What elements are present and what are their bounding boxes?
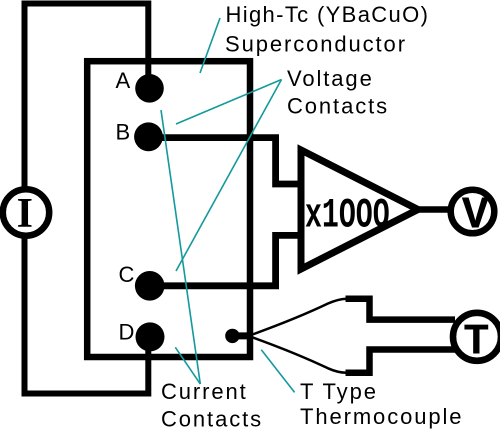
wire: amplifier output bbox=[418, 206, 452, 213]
thermocouple junction stub bbox=[232, 332, 252, 339]
contact D bbox=[136, 322, 165, 351]
wire: thermocouple top lead to T meter bbox=[346, 299, 456, 320]
superconductor sample rectangle bbox=[87, 61, 250, 357]
leader line: Voltage Contacts to C bbox=[176, 80, 282, 272]
svg-text:B: B bbox=[116, 119, 131, 144]
svg-text:A: A bbox=[116, 68, 131, 93]
svg-text:x1OOO: x1OOO bbox=[305, 191, 390, 239]
thermometer T bbox=[453, 313, 500, 361]
svg-text:V: V bbox=[462, 191, 489, 242]
svg-text:Thermocouple: Thermocouple bbox=[300, 404, 463, 429]
svg-text:Superconductor: Superconductor bbox=[225, 32, 407, 57]
leader line: Voltage Contacts to B bbox=[176, 80, 282, 125]
svg-text:T: T bbox=[463, 318, 489, 368]
thermocouple bead bbox=[225, 329, 239, 343]
current source I bbox=[3, 189, 49, 235]
svg-text:C: C bbox=[119, 262, 135, 287]
svg-text:D: D bbox=[119, 319, 135, 344]
svg-text:Contacts: Contacts bbox=[287, 94, 389, 119]
leader line: Current Contacts to A bbox=[161, 110, 200, 384]
svg-text:Contacts: Contacts bbox=[161, 407, 263, 429]
wire: thermocouple bottom lead to T meter bbox=[346, 350, 456, 373]
contact C bbox=[135, 271, 165, 301]
wire: outer current loop (A up, across top, down left, across bottom, up to D) bbox=[25, 4, 149, 394]
wire: contact B to amplifier + input bbox=[149, 138, 304, 184]
voltmeter V bbox=[451, 190, 495, 234]
leader line: Current Contacts to D bbox=[175, 347, 200, 384]
wire: contact C to amplifier - input bbox=[149, 235, 304, 285]
op-amp x1000 bbox=[301, 150, 418, 269]
contact A bbox=[135, 74, 164, 103]
contact B bbox=[134, 122, 163, 151]
svg-text:Voltage: Voltage bbox=[287, 66, 374, 91]
leader line: T Type label to thermocouple bbox=[261, 350, 294, 393]
svg-text:I: I bbox=[17, 191, 33, 237]
thermocouple wire bottom (thin curve) bbox=[252, 337, 347, 373]
svg-text:T Type: T Type bbox=[300, 379, 378, 404]
leader line: High-Tc label to sample bbox=[200, 18, 220, 73]
svg-text:Current: Current bbox=[161, 379, 248, 404]
thermocouple wire top (thin curve) bbox=[252, 299, 347, 335]
svg-text:High-Tc (YBaCuO): High-Tc (YBaCuO) bbox=[226, 2, 430, 27]
